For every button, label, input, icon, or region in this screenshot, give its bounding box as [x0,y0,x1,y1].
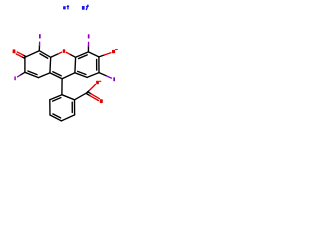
node Od: carboxylate =O label [100,99,103,103]
wire: bond L2-L3 [24,57,26,72]
wire: bond P5-P6 [49,100,51,115]
wire: bond P1-P2 (phenyl ring) [62,95,75,100]
node I lower-right label [113,77,115,81]
wire: bond C9-P1 (link to phenyl) [61,79,63,95]
node I top-right label [88,34,90,38]
wire: double bond L6-L1 [39,51,50,58]
wire: double bond L3-L4 [25,72,39,77]
wire: bond P3-P4 [61,115,74,121]
wire: double bond Cc=O carboxylate [86,94,90,96]
node Ophen: phenolate O label [112,50,115,53]
wire: bond R4-I lower-right [99,73,106,76]
node I top-left label [39,34,41,38]
node Obr: bridge O label [63,49,66,53]
wire: bond R4-R5 [87,73,99,78]
wire: double bond R3-R4 [98,57,100,73]
node Na+ cation 2 [82,6,85,10]
wire: bond Obr-R1 [70,54,76,57]
wire: double bond P2-P3 [74,100,76,115]
wire: bond L1-I top-left [38,46,40,51]
wire: bond L3-I lower-left [20,72,25,75]
wire: bond R3-Ophenolate [99,55,104,57]
node Ophen minus charge [115,49,118,50]
wire: double bond L5-C9 (central ring) [50,73,62,79]
wire: bond L1-L2 (xanthene left ring) [25,51,39,58]
wire: bond R2-I top-right [87,46,89,52]
wire: bond L4-L5 [38,73,50,78]
wire: bond P2-Cc (to carboxylate) [75,93,88,100]
wire: bond C9-R6 [62,73,75,79]
chemical structure diagram: erythrosine disodium (2D skeletal formula) [0,0,130,130]
node Na+ cation 1 [63,6,66,9]
wire: double bond P6-P1 [50,95,62,100]
wire: bond R6-R1 (fused edge) [74,57,77,73]
wire: bond L5-L6 (fused edge) [49,57,52,73]
node Om minus charge [99,81,101,82]
wire: bond Cc-O(-) carboxylate single [87,90,89,92]
node Om: carboxylate O(-) label [96,81,99,85]
wire: double bond L2=Oket (ketone) [23,55,25,56]
wire: double bond R1-R2 (right ring) [76,52,89,57]
wire: bond R2-R3 [88,52,99,57]
wire: bond L6-Obr (C-O bridge) [51,54,58,57]
node Oket: ketone O label [13,49,16,53]
wire: double bond P4-P5 [50,115,61,121]
node I lower-left label [14,76,15,80]
wire: double bond R5-R6 [75,73,87,78]
